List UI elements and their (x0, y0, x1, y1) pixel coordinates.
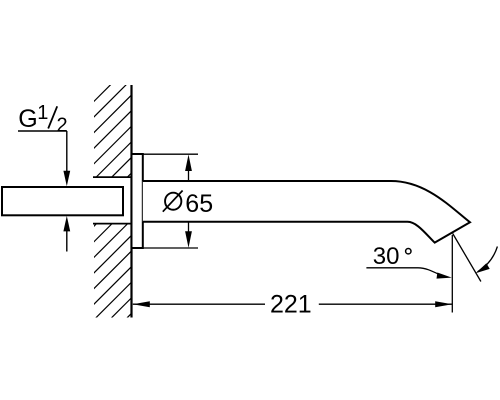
dia65 arrow down (185, 231, 192, 248)
wall hole bottom line (93, 223, 132, 225)
spout tip extension line (vertical) (451, 235, 453, 313)
30deg reference line (angled) (453, 234, 481, 282)
G1/2 leader vertical (66, 131, 68, 172)
degree symbol (406, 249, 411, 254)
svg-text:1: 1 (37, 102, 48, 124)
dia65 symbol circle (165, 193, 181, 210)
30deg leader arrowhead (437, 272, 452, 278)
spout body outline (143, 181, 470, 243)
dim 221 arrow right (435, 301, 452, 307)
svg-text:G: G (18, 105, 37, 133)
30deg leader line (366, 268, 440, 275)
dia65 bottom extension line (143, 247, 198, 249)
G1/2 lower extension line (66, 229, 68, 252)
G1/2 underline (18, 130, 67, 132)
G1/2 arrow down (to pipe top) (63, 171, 70, 187)
wall face line (130, 85, 132, 318)
30deg angle arc (478, 247, 498, 272)
fraction slash (48, 106, 57, 128)
svg-text:65: 65 (185, 190, 213, 218)
svg-text:2: 2 (57, 114, 68, 136)
dia65 arrow up (185, 155, 192, 172)
30deg arc arrowhead (476, 263, 490, 273)
svg-text:221: 221 (270, 291, 312, 319)
dim 221 line left segment (133, 303, 265, 305)
dia65 symbol slash (163, 191, 183, 212)
dim 221 line right segment (319, 303, 452, 305)
wall hole top line (93, 176, 132, 178)
wall hatching (0, 80, 365, 320)
pipe (G1/2 connector) (2, 187, 123, 215)
svg-text:30: 30 (373, 243, 400, 270)
dim 221 arrow left (133, 301, 150, 307)
dia65 top extension line (143, 153, 198, 155)
G1/2 arrow up (to pipe bottom) (63, 216, 70, 232)
flange (escutcheon) (132, 154, 143, 248)
